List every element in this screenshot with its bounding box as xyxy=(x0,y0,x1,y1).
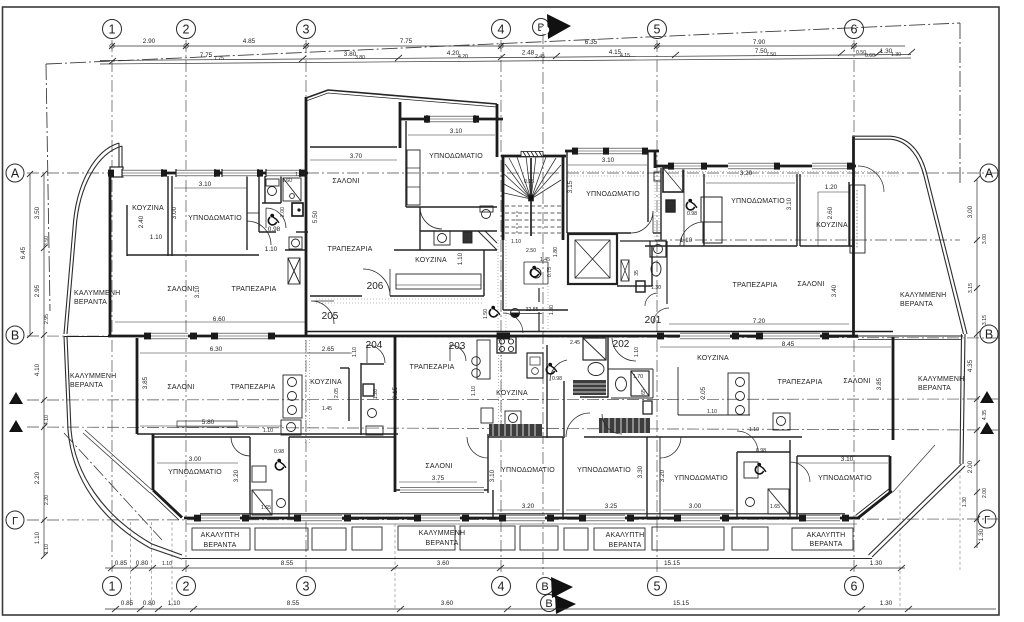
svg-text:A: A xyxy=(984,395,990,404)
svg-text:6.45: 6.45 xyxy=(20,246,27,259)
svg-text:1.30: 1.30 xyxy=(891,52,901,58)
svg-text:3.20: 3.20 xyxy=(659,469,666,482)
svg-text:ΥΠΝΟΔΩΜΑΤΙΟ: ΥΠΝΟΔΩΜΑΤΙΟ xyxy=(188,215,242,222)
svg-text:1.30: 1.30 xyxy=(651,285,661,291)
svg-text:1.10: 1.10 xyxy=(457,252,464,265)
svg-text:2.45: 2.45 xyxy=(535,54,545,60)
svg-text:2.95: 2.95 xyxy=(44,314,50,324)
svg-text:ΒΕΡΑΝΤΑ: ΒΕΡΑΝΤΑ xyxy=(74,299,107,306)
svg-text:3.80: 3.80 xyxy=(355,55,365,61)
svg-text:ΤΡΑΠΕΖΑΡΙΑ: ΤΡΑΠΕΖΑΡΙΑ xyxy=(409,364,454,371)
svg-text:1.45: 1.45 xyxy=(322,406,332,412)
svg-text:1.10: 1.10 xyxy=(265,246,278,253)
svg-text:0.98: 0.98 xyxy=(552,376,562,382)
svg-text:2.45: 2.45 xyxy=(570,340,580,346)
svg-text:2: 2 xyxy=(183,580,190,594)
svg-text:0.98: 0.98 xyxy=(756,448,766,454)
svg-text:ΚΟΥΖΙΝΑ: ΚΟΥΖΙΝΑ xyxy=(816,222,848,229)
svg-text:ΚΑΛΥΜΜΕΝΗ: ΚΑΛΥΜΜΕΝΗ xyxy=(70,373,116,380)
svg-text:4: 4 xyxy=(498,580,505,594)
svg-text:7.75: 7.75 xyxy=(400,38,413,45)
svg-text:201: 201 xyxy=(645,315,662,326)
svg-text:15.15: 15.15 xyxy=(673,600,689,607)
svg-text:ΥΠΝΟΔΩΜΑΤΙΟ: ΥΠΝΟΔΩΜΑΤΙΟ xyxy=(586,191,640,198)
svg-text:1.50: 1.50 xyxy=(483,309,489,319)
svg-text:ΒΕΡΑΝΤΑ: ΒΕΡΑΝΤΑ xyxy=(70,382,103,389)
svg-text:ΥΠΝΟΔΩΜΑΤΙΟ: ΥΠΝΟΔΩΜΑΤΙΟ xyxy=(168,469,222,476)
svg-text:4.10: 4.10 xyxy=(44,415,50,425)
svg-text:205: 205 xyxy=(322,311,339,322)
svg-text:3.00: 3.00 xyxy=(189,456,202,463)
svg-text:ΚΑΛΥΜΜΕΝΗ: ΚΑΛΥΜΜΕΝΗ xyxy=(74,290,120,297)
svg-text:1.10: 1.10 xyxy=(707,409,717,415)
svg-text:2.05: 2.05 xyxy=(334,388,340,398)
svg-text:1.30: 1.30 xyxy=(962,497,968,507)
svg-text:ΒΕΡΑΝΤΑ: ΒΕΡΑΝΤΑ xyxy=(900,301,933,308)
svg-text:1.45: 1.45 xyxy=(540,257,550,263)
svg-text:6.30: 6.30 xyxy=(210,346,223,353)
svg-text:4.85: 4.85 xyxy=(243,38,256,45)
svg-text:ΥΠΝΟΔΩΜΑΤΙΟ: ΥΠΝΟΔΩΜΑΤΙΟ xyxy=(674,475,728,482)
svg-text:ΒΕΡΑΝΤΑ: ΒΕΡΑΝΤΑ xyxy=(608,542,641,549)
svg-text:A: A xyxy=(11,167,20,181)
svg-text:ΒΕΡΑΝΤΑ: ΒΕΡΑΝΤΑ xyxy=(425,540,458,547)
svg-text:1.65: 1.65 xyxy=(770,504,780,510)
svg-text:4.10: 4.10 xyxy=(34,363,41,376)
svg-text:1.10: 1.10 xyxy=(162,561,172,567)
svg-text:ΚΟΥΖΙΝΑ: ΚΟΥΖΙΝΑ xyxy=(496,390,528,397)
svg-text:2.65: 2.65 xyxy=(322,346,335,353)
svg-text:ΥΠΝΟΔΩΜΑΤΙΟ: ΥΠΝΟΔΩΜΑΤΙΟ xyxy=(577,467,631,474)
svg-text:3.25: 3.25 xyxy=(605,503,618,510)
svg-text:3.70: 3.70 xyxy=(350,153,363,160)
svg-text:ΚΟΥΖΙΝΑ: ΚΟΥΖΙΝΑ xyxy=(415,257,447,264)
svg-text:1.30: 1.30 xyxy=(880,600,893,607)
svg-text:35: 35 xyxy=(634,270,640,276)
svg-text:0.60: 0.60 xyxy=(865,53,875,59)
svg-text:2.60: 2.60 xyxy=(827,206,834,219)
svg-text:3.10: 3.10 xyxy=(602,157,615,164)
svg-text:B: B xyxy=(985,328,993,342)
svg-text:203: 203 xyxy=(449,341,466,352)
svg-text:ΑΚΑΛΥΠΤΗ: ΑΚΑΛΥΠΤΗ xyxy=(606,532,645,539)
svg-text:4.35: 4.35 xyxy=(982,410,988,420)
svg-text:1.60: 1.60 xyxy=(282,178,292,184)
svg-text:4.20: 4.20 xyxy=(458,54,468,60)
svg-text:ΚΑΛΥΜΜΕΝΗ: ΚΑΛΥΜΜΕΝΗ xyxy=(900,292,946,299)
svg-text:1.10: 1.10 xyxy=(352,347,358,357)
svg-text:3.00: 3.00 xyxy=(967,205,974,218)
svg-text:0.80: 0.80 xyxy=(136,560,149,567)
svg-text:2.00: 2.00 xyxy=(982,488,988,498)
svg-text:3.85: 3.85 xyxy=(142,376,149,389)
svg-text:0.98: 0.98 xyxy=(687,211,697,217)
svg-text:B: B xyxy=(11,329,19,343)
svg-text:ΚΑΛΥΜΜΕΝΗ: ΚΑΛΥΜΜΕΝΗ xyxy=(918,376,964,383)
svg-text:1: 1 xyxy=(109,580,116,594)
svg-text:0.85: 0.85 xyxy=(121,600,134,607)
svg-text:0.98: 0.98 xyxy=(274,449,284,455)
svg-text:3.10: 3.10 xyxy=(489,469,496,482)
svg-text:ΥΠΝΟΔΩΜΑΤΙΟ: ΥΠΝΟΔΩΜΑΤΙΟ xyxy=(501,467,555,474)
svg-text:A: A xyxy=(13,424,19,433)
svg-text:ΚΑΛΥΜΜΕΝΗ: ΚΑΛΥΜΜΕΝΗ xyxy=(419,530,465,537)
svg-text:3.10: 3.10 xyxy=(786,197,793,210)
svg-text:1.10: 1.10 xyxy=(263,428,273,434)
svg-text:4.35: 4.35 xyxy=(967,359,974,372)
svg-text:3.00: 3.00 xyxy=(982,234,988,244)
svg-text:1: 1 xyxy=(109,23,116,37)
svg-text:ΑΚΑΛΥΠΤΗ: ΑΚΑΛΥΠΤΗ xyxy=(201,532,240,539)
svg-text:1.10: 1.10 xyxy=(749,427,759,433)
svg-text:206: 206 xyxy=(367,281,384,292)
svg-text:1.20: 1.20 xyxy=(373,389,379,399)
svg-text:0.80: 0.80 xyxy=(143,600,156,607)
svg-text:3.15: 3.15 xyxy=(567,180,574,193)
svg-text:3.60: 3.60 xyxy=(441,600,454,607)
svg-text:B: B xyxy=(545,598,552,610)
svg-text:0.85: 0.85 xyxy=(115,560,128,567)
svg-text:ΣΑΛΟΝΙ: ΣΑΛΟΝΙ xyxy=(843,378,870,385)
svg-text:1.10: 1.10 xyxy=(680,237,693,244)
svg-text:4.15: 4.15 xyxy=(620,53,630,59)
svg-text:3.30: 3.30 xyxy=(637,465,644,478)
svg-text:B: B xyxy=(541,581,548,593)
svg-text:ΒΕΡΑΝΤΑ: ΒΕΡΑΝΤΑ xyxy=(203,542,236,549)
svg-text:ΤΡΑΠΕΖΑΡΙΑ: ΤΡΑΠΕΖΑΡΙΑ xyxy=(231,286,276,293)
svg-text:A: A xyxy=(13,396,19,405)
svg-text:5: 5 xyxy=(654,23,661,37)
svg-text:A: A xyxy=(985,167,994,181)
svg-text:3: 3 xyxy=(303,580,310,594)
svg-text:3.85: 3.85 xyxy=(876,377,883,390)
svg-text:7.90: 7.90 xyxy=(753,39,766,46)
svg-text:8.55: 8.55 xyxy=(287,600,300,607)
svg-text:ΣΑΛΟΝΙ: ΣΑΛΟΝΙ xyxy=(167,384,194,391)
svg-text:6.35: 6.35 xyxy=(585,39,598,46)
svg-text:ΤΡΑΠΕΖΑΡΙΑ: ΤΡΑΠΕΖΑΡΙΑ xyxy=(777,379,822,386)
svg-text:2.95: 2.95 xyxy=(34,284,41,297)
svg-text:3.00: 3.00 xyxy=(171,206,178,219)
svg-text:3.15: 3.15 xyxy=(968,283,974,293)
svg-text:2.05: 2.05 xyxy=(700,386,707,399)
svg-text:3.20: 3.20 xyxy=(740,170,753,177)
svg-text:2.90: 2.90 xyxy=(143,38,156,45)
svg-text:ΣΑΛΟΝΙ: ΣΑΛΟΝΙ xyxy=(425,463,452,470)
svg-text:1.65: 1.65 xyxy=(261,505,271,511)
svg-text:2.50: 2.50 xyxy=(526,248,536,254)
svg-text:1.10: 1.10 xyxy=(634,347,640,357)
svg-text:1.10: 1.10 xyxy=(511,239,521,245)
svg-text:2.20: 2.20 xyxy=(44,495,50,505)
svg-text:ΤΡΑΠΕΖΑΡΙΑ: ΤΡΑΠΕΖΑΡΙΑ xyxy=(230,384,275,391)
svg-text:Γ: Γ xyxy=(984,515,990,527)
svg-text:0.75: 0.75 xyxy=(547,267,553,277)
svg-text:2.20: 2.20 xyxy=(34,471,41,484)
svg-text:15.15: 15.15 xyxy=(664,560,680,567)
svg-text:65: 65 xyxy=(641,389,647,395)
svg-text:1.80: 1.80 xyxy=(549,305,555,315)
svg-text:3.10: 3.10 xyxy=(194,285,201,298)
svg-text:2.00: 2.00 xyxy=(967,460,974,473)
svg-text:8.55: 8.55 xyxy=(281,560,294,567)
svg-text:ΣΑΛΟΝΙ: ΣΑΛΟΝΙ xyxy=(167,286,194,293)
svg-text:3.40: 3.40 xyxy=(831,284,838,297)
svg-text:7.75: 7.75 xyxy=(200,52,213,59)
svg-text:6.15: 6.15 xyxy=(392,386,399,399)
svg-text:ΤΡΑΠΕΖΑΡΙΑ: ΤΡΑΠΕΖΑΡΙΑ xyxy=(732,282,777,289)
svg-text:ΤΡΑΠΕΖΑΡΙΑ: ΤΡΑΠΕΖΑΡΙΑ xyxy=(327,246,372,253)
svg-text:3.60: 3.60 xyxy=(437,560,450,567)
svg-text:ΥΠΝΟΔΩΜΑΤΙΟ: ΥΠΝΟΔΩΜΑΤΙΟ xyxy=(429,153,483,160)
svg-text:1.70: 1.70 xyxy=(633,374,643,380)
svg-text:3.20: 3.20 xyxy=(522,503,535,510)
svg-text:3: 3 xyxy=(303,23,310,37)
svg-text:ΣΑΛΟΝΙ: ΣΑΛΟΝΙ xyxy=(797,281,824,288)
svg-text:Γ: Γ xyxy=(12,516,18,528)
svg-text:1.10: 1.10 xyxy=(168,600,181,607)
svg-text:6: 6 xyxy=(851,23,858,37)
svg-text:ΑΚΑΛΥΠΤΗ: ΑΚΑΛΥΠΤΗ xyxy=(807,532,846,539)
svg-text:ΚΟΥΖΙΝΑ: ΚΟΥΖΙΝΑ xyxy=(132,205,164,212)
svg-text:1.30: 1.30 xyxy=(870,560,883,567)
svg-text:1.10: 1.10 xyxy=(150,234,163,241)
svg-text:32.85: 32.85 xyxy=(526,307,539,313)
svg-text:1.80: 1.80 xyxy=(553,247,559,257)
svg-text:0.15: 0.15 xyxy=(524,179,534,185)
svg-text:3.10: 3.10 xyxy=(199,181,212,188)
svg-text:3.50: 3.50 xyxy=(44,236,50,246)
svg-text:ΥΠΝΟΔΩΜΑΤΙΟ: ΥΠΝΟΔΩΜΑΤΙΟ xyxy=(818,475,872,482)
svg-text:202: 202 xyxy=(613,339,630,350)
svg-text:1.30: 1.30 xyxy=(978,528,985,541)
svg-text:0.98: 0.98 xyxy=(268,226,281,233)
svg-text:2.40: 2.40 xyxy=(138,215,145,228)
svg-text:2.00: 2.00 xyxy=(280,207,286,217)
svg-text:ΥΠΝΟΔΩΜΑΤΙΟ: ΥΠΝΟΔΩΜΑΤΙΟ xyxy=(731,198,785,205)
svg-text:3.15: 3.15 xyxy=(982,315,988,325)
svg-text:1.10: 1.10 xyxy=(44,544,50,554)
svg-text:5.50: 5.50 xyxy=(312,210,319,223)
svg-text:7.50: 7.50 xyxy=(766,52,776,58)
svg-text:A: A xyxy=(984,426,990,435)
svg-text:3.00: 3.00 xyxy=(689,503,702,510)
svg-text:6: 6 xyxy=(851,580,858,594)
svg-text:ΒΕΡΑΝΤΑ: ΒΕΡΑΝΤΑ xyxy=(809,541,842,548)
svg-text:1.20: 1.20 xyxy=(825,184,838,191)
svg-text:3.10: 3.10 xyxy=(841,456,854,463)
svg-text:7.75: 7.75 xyxy=(214,56,224,62)
svg-text:5.80: 5.80 xyxy=(202,419,215,426)
svg-text:ΚΟΥΖΙΝΑ: ΚΟΥΖΙΝΑ xyxy=(697,355,729,362)
svg-text:4: 4 xyxy=(498,23,505,37)
svg-text:1.10: 1.10 xyxy=(34,531,41,544)
svg-text:ΒΕΡΑΝΤΑ: ΒΕΡΑΝΤΑ xyxy=(918,385,951,392)
svg-text:ΚΟΥΖΙΝΑ: ΚΟΥΖΙΝΑ xyxy=(310,379,342,386)
svg-text:1.00: 1.00 xyxy=(295,172,305,178)
svg-text:2.48: 2.48 xyxy=(522,50,535,57)
svg-text:3.10: 3.10 xyxy=(450,128,463,135)
svg-text:ΣΑΛΟΝΙ: ΣΑΛΟΝΙ xyxy=(332,178,359,185)
svg-text:2: 2 xyxy=(183,23,190,37)
svg-text:3.75: 3.75 xyxy=(432,475,445,482)
svg-text:3.50: 3.50 xyxy=(34,206,41,219)
svg-text:5: 5 xyxy=(654,580,661,594)
svg-text:204: 204 xyxy=(366,340,383,351)
svg-text:3.20: 3.20 xyxy=(233,469,240,482)
svg-text:1.10: 1.10 xyxy=(471,386,477,396)
